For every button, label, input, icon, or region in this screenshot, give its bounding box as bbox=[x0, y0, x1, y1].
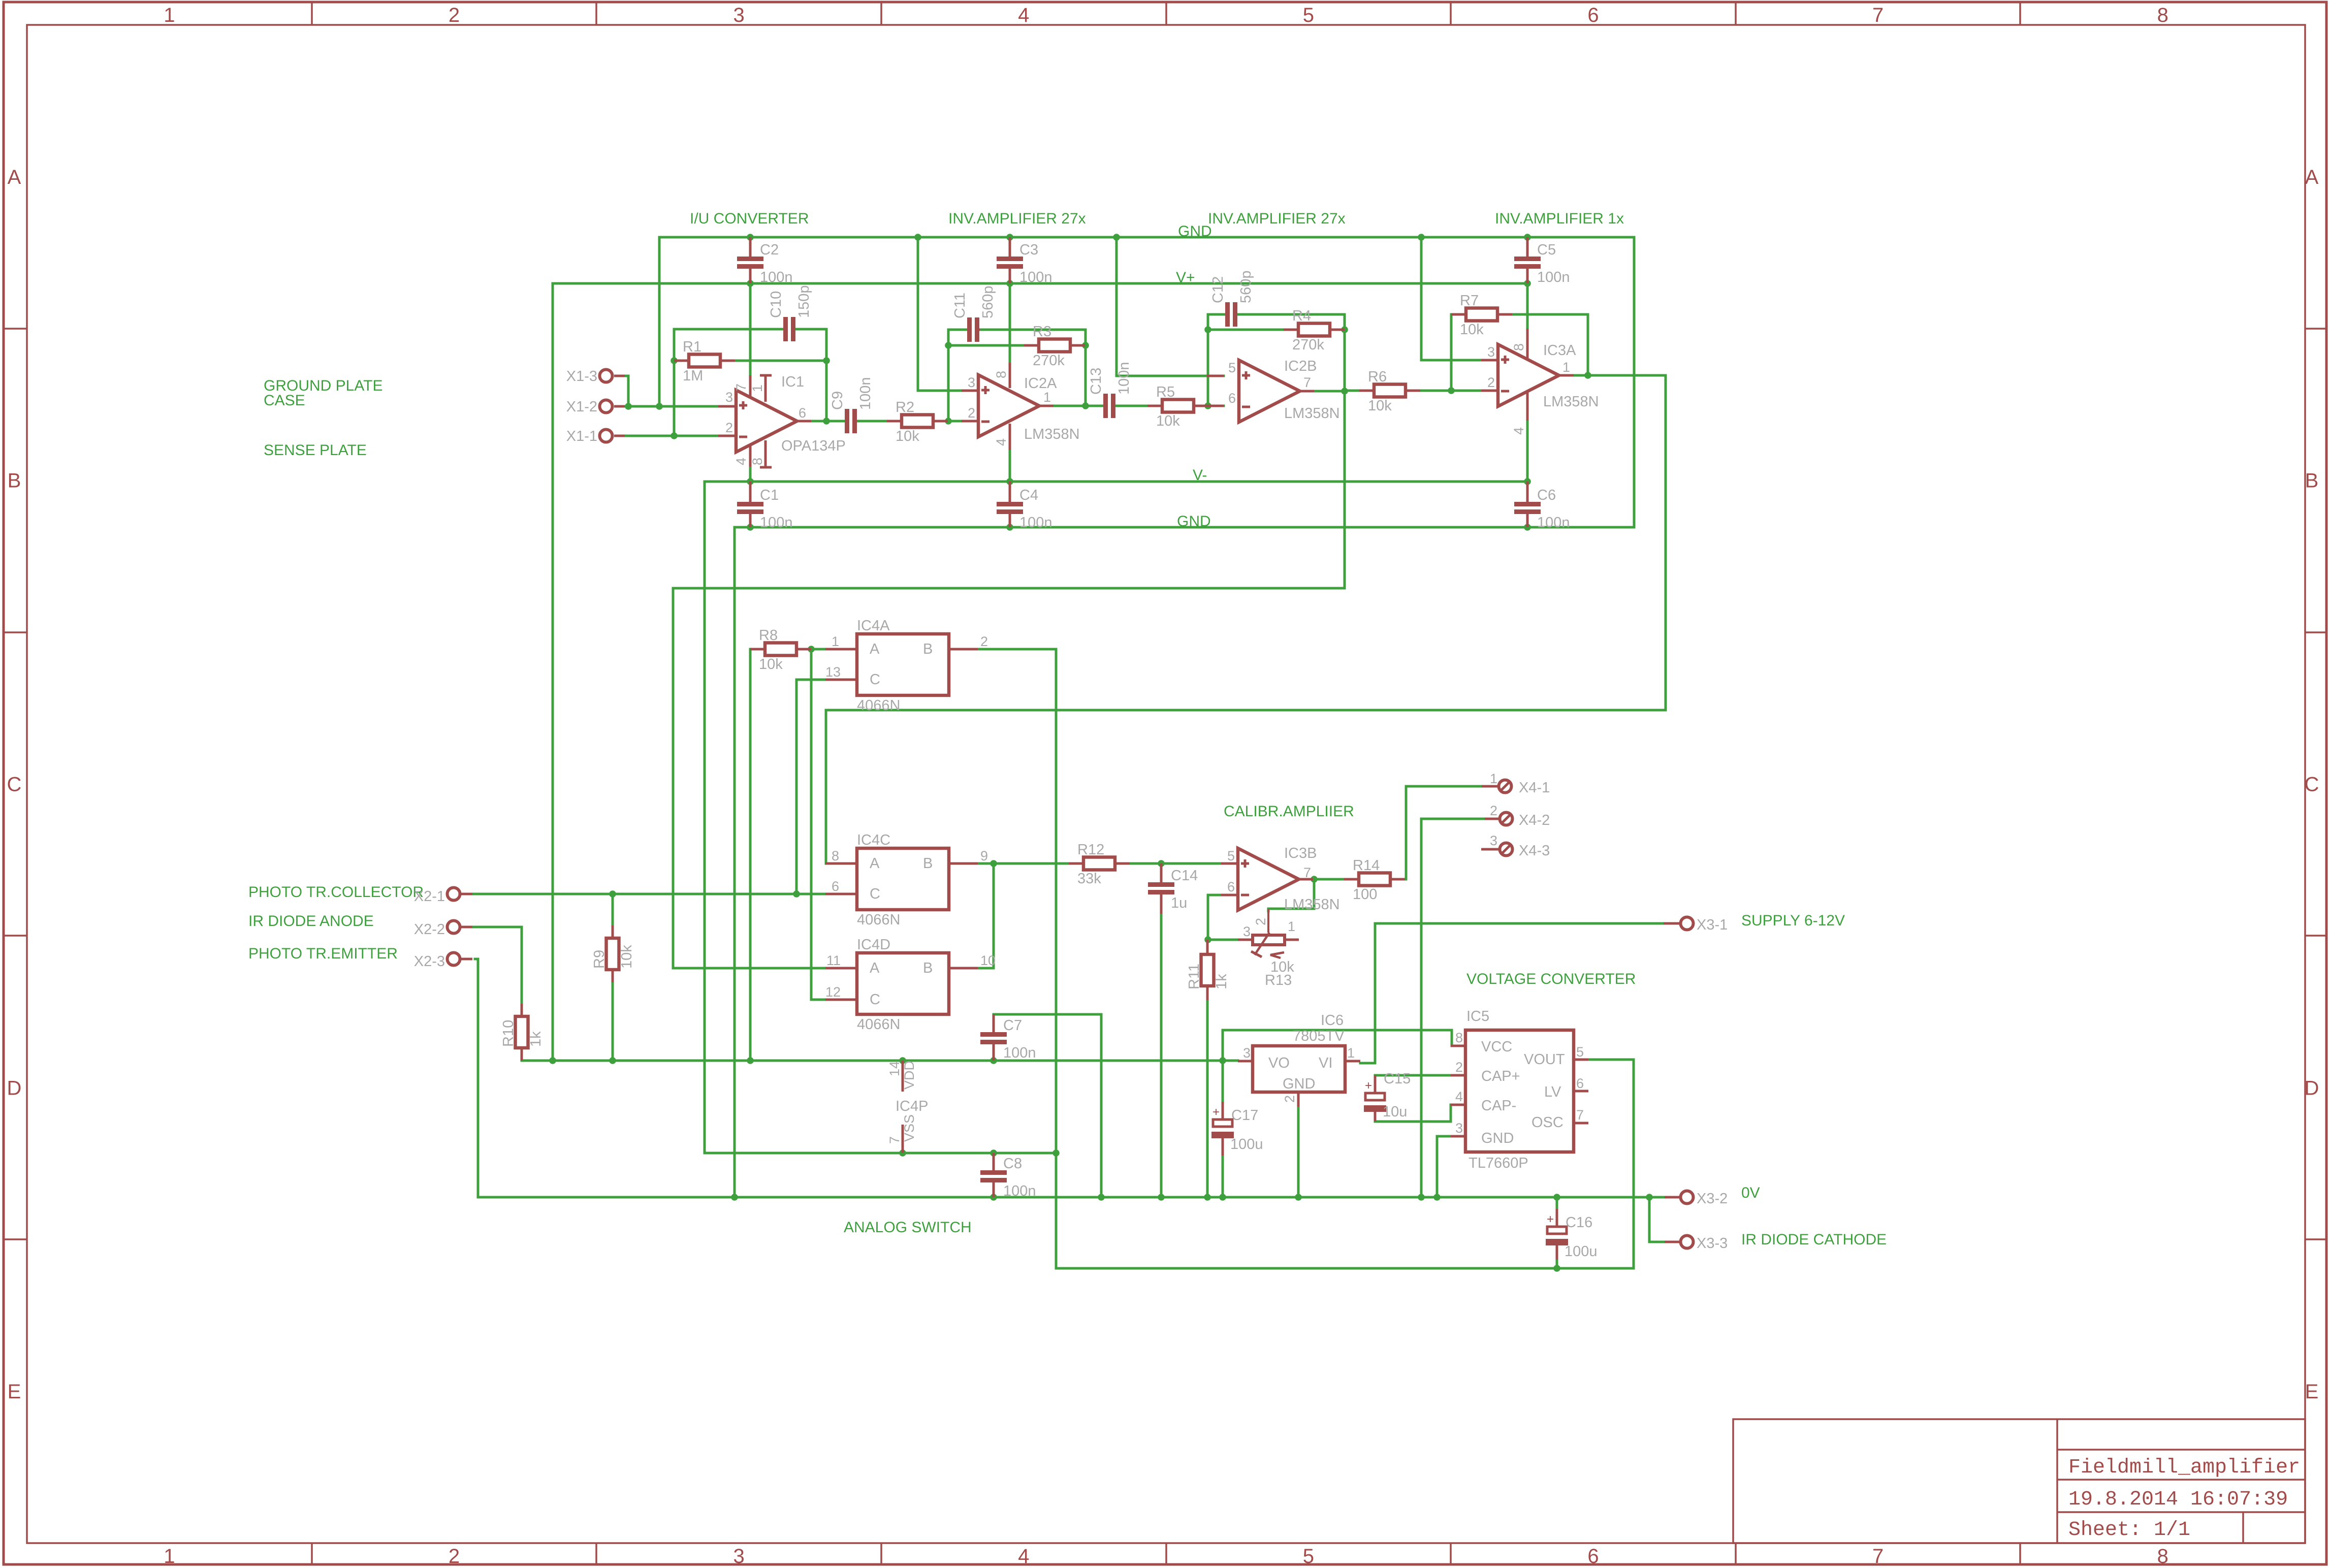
svg-text:R2: R2 bbox=[896, 399, 914, 415]
capacitor C15 bbox=[1374, 1075, 1377, 1093]
svg-text:100n: 100n bbox=[760, 269, 793, 285]
wire C17 bottom to 0V rail bbox=[1222, 1156, 1224, 1197]
svg-text:CAP-: CAP- bbox=[1481, 1098, 1516, 1114]
svg-text:X4-3: X4-3 bbox=[1519, 843, 1550, 859]
svg-text:CALIBR.AMPLIIER: CALIBR.AMPLIIER bbox=[1224, 803, 1354, 820]
svg-text:2: 2 bbox=[980, 634, 988, 649]
svg-text:1: 1 bbox=[832, 634, 839, 649]
junction dots analog switch bbox=[808, 646, 815, 653]
wire C7 top loop to 0V rail bbox=[994, 1014, 1101, 1197]
svg-text:CAP+: CAP+ bbox=[1481, 1068, 1520, 1084]
svg-text:+: + bbox=[1212, 1105, 1220, 1119]
svg-text:OPA134P: OPA134P bbox=[781, 438, 846, 454]
svg-text:7: 7 bbox=[733, 383, 749, 391]
wire R6 right to IC3A pin2 bbox=[1421, 390, 1481, 392]
wire R3/C11 left leg down to inverting input bbox=[947, 330, 950, 421]
wire IC4A pin2 long route to V- net bbox=[978, 649, 1634, 1268]
svg-text:560p: 560p bbox=[1238, 270, 1254, 303]
svg-text:1: 1 bbox=[750, 385, 765, 392]
wire R8 right node to IC4A pin1 bbox=[811, 648, 825, 651]
svg-text:CASE: CASE bbox=[264, 392, 305, 409]
svg-text:C16: C16 bbox=[1566, 1214, 1592, 1231]
svg-text:X2-2: X2-2 bbox=[414, 921, 445, 938]
capacitor C8 bbox=[993, 1153, 995, 1170]
svg-text:GND: GND bbox=[1481, 1130, 1514, 1146]
wire GND top rail with right wrap to bottom GND rail bbox=[659, 237, 1634, 1197]
capacitor C10 bbox=[782, 328, 785, 331]
wire X1-3 to X1-2 link bbox=[625, 376, 628, 406]
op-amp IC2B LM358N bbox=[1207, 375, 1224, 377]
svg-text:1: 1 bbox=[1347, 1045, 1355, 1061]
svg-text:C: C bbox=[2305, 774, 2319, 796]
svg-text:8: 8 bbox=[2157, 4, 2168, 26]
svg-text:C14: C14 bbox=[1171, 868, 1198, 884]
svg-text:8: 8 bbox=[832, 848, 839, 863]
connector X2-1 bbox=[461, 893, 472, 895]
svg-text:IR DIODE ANODE: IR DIODE ANODE bbox=[248, 913, 374, 930]
svg-text:7805TV: 7805TV bbox=[1293, 1028, 1345, 1044]
wire 0V rail bbox=[478, 1196, 1665, 1199]
wire X1-1 row to IC1 pin2 bbox=[625, 435, 718, 437]
connector X3-2 bbox=[1665, 1196, 1680, 1199]
svg-text:5: 5 bbox=[1576, 1044, 1584, 1060]
svg-text:E: E bbox=[8, 1381, 21, 1403]
svg-text:6: 6 bbox=[1228, 391, 1236, 406]
wire IC6 VO node up-over to IC5 VCC bbox=[1223, 1030, 1452, 1061]
svg-text:X1-3: X1-3 bbox=[566, 368, 597, 385]
svg-text:R9: R9 bbox=[591, 950, 608, 969]
svg-text:C15: C15 bbox=[1384, 1071, 1411, 1087]
svg-text:1u: 1u bbox=[1171, 895, 1187, 911]
junction dots GND top rail bbox=[747, 234, 754, 241]
svg-text:1: 1 bbox=[164, 1545, 175, 1567]
svg-text:X1-2: X1-2 bbox=[566, 399, 597, 415]
svg-text:3: 3 bbox=[725, 390, 733, 405]
svg-text:SUPPLY 6-12V: SUPPLY 6-12V bbox=[1741, 912, 1845, 929]
svg-text:7: 7 bbox=[1576, 1107, 1584, 1123]
svg-text:B: B bbox=[923, 960, 933, 976]
svg-text:C: C bbox=[7, 774, 22, 796]
wire R9 bottom to V+ rail bbox=[612, 982, 614, 1061]
wire R7 right to IC3A output bbox=[1513, 314, 1588, 375]
svg-text:C5: C5 bbox=[1537, 242, 1556, 258]
svg-text:B: B bbox=[923, 855, 933, 872]
capacitor C17 bbox=[1222, 1102, 1224, 1119]
wire IC2A output to C13 bbox=[1054, 405, 1103, 407]
svg-text:1: 1 bbox=[164, 4, 175, 26]
svg-text:6: 6 bbox=[1587, 4, 1599, 26]
wire C15 bottom to IC5 CAP- bbox=[1375, 1105, 1451, 1122]
svg-text:VSS: VSS bbox=[902, 1114, 917, 1142]
svg-text:C9: C9 bbox=[829, 391, 846, 410]
svg-text:270k: 270k bbox=[1033, 353, 1065, 369]
svg-text:4066N: 4066N bbox=[857, 697, 900, 714]
wire GND drop to X1-2 node bbox=[658, 237, 661, 406]
svg-text:VDD: VDD bbox=[902, 1061, 917, 1090]
svg-text:A: A bbox=[870, 641, 880, 657]
svg-text:X2-1: X2-1 bbox=[414, 888, 445, 905]
op-amp IC1 OPA134P bbox=[718, 405, 736, 408]
svg-text:INV.AMPLIFIER 1x: INV.AMPLIFIER 1x bbox=[1495, 210, 1624, 227]
junction dots input stage bbox=[625, 403, 632, 410]
svg-text:IC6: IC6 bbox=[1321, 1012, 1344, 1029]
svg-text:X2-3: X2-3 bbox=[414, 953, 445, 970]
svg-text:IC5: IC5 bbox=[1466, 1008, 1489, 1025]
svg-text:7: 7 bbox=[1303, 865, 1311, 880]
svg-text:2: 2 bbox=[725, 420, 733, 435]
capacitor C16 bbox=[1556, 1209, 1558, 1227]
svg-text:3: 3 bbox=[733, 1545, 744, 1567]
svg-text:100n: 100n bbox=[760, 515, 793, 531]
svg-text:A: A bbox=[870, 855, 880, 872]
svg-text:D: D bbox=[2305, 1077, 2319, 1099]
svg-text:10k: 10k bbox=[896, 428, 919, 444]
svg-text:+: + bbox=[1547, 1212, 1554, 1226]
wire X4-2 to 0V rail bbox=[1421, 819, 1485, 1197]
svg-text:4: 4 bbox=[733, 458, 749, 465]
connector X4-2 bbox=[1485, 818, 1499, 820]
wire V+ drop to lower V+ rail bbox=[552, 283, 554, 1061]
wire IC3B output feedback to R13 wiper bbox=[1268, 879, 1314, 911]
potentiometer R13 bbox=[1238, 939, 1253, 941]
wire IC4A pin13 to X2-1 net bbox=[796, 679, 825, 681]
svg-text:4: 4 bbox=[1455, 1089, 1463, 1104]
svg-text:X3-1: X3-1 bbox=[1697, 917, 1728, 933]
svg-text:IC4D: IC4D bbox=[857, 937, 890, 953]
junction dots IC3A stage bbox=[1448, 387, 1455, 394]
capacitor C10 bbox=[782, 328, 785, 331]
wire R6 left bbox=[1345, 390, 1359, 392]
svg-text:5: 5 bbox=[1303, 1545, 1314, 1567]
analog switch IC4C bbox=[825, 862, 857, 865]
svg-text:IC4P: IC4P bbox=[896, 1098, 928, 1114]
svg-text:1k: 1k bbox=[528, 1031, 544, 1047]
svg-text:LM358N: LM358N bbox=[1284, 405, 1340, 422]
svg-text:0V: 0V bbox=[1741, 1185, 1760, 1201]
connector X1-1 bbox=[614, 435, 625, 437]
wire V- drop to VSS rail bbox=[704, 482, 706, 1153]
svg-text:R8: R8 bbox=[759, 627, 778, 644]
wire C11 row left bbox=[948, 329, 967, 331]
connector X4-3 bbox=[1481, 848, 1499, 851]
wire C9 to R2 bbox=[857, 420, 887, 423]
svg-text:2: 2 bbox=[1253, 918, 1268, 925]
svg-text:R4: R4 bbox=[1292, 308, 1311, 324]
svg-text:Sheet: 1/1: Sheet: 1/1 bbox=[2068, 1519, 2190, 1542]
svg-text:ANALOG SWITCH: ANALOG SWITCH bbox=[844, 1219, 972, 1236]
svg-text:150p: 150p bbox=[796, 285, 812, 318]
svg-text:2: 2 bbox=[1490, 803, 1497, 818]
svg-text:PHOTO TR.EMITTER: PHOTO TR.EMITTER bbox=[248, 945, 398, 962]
svg-text:2: 2 bbox=[449, 1545, 460, 1567]
wire R8 node down to IC4D pin12 bbox=[811, 649, 825, 1000]
svg-text:C1: C1 bbox=[760, 487, 779, 503]
svg-text:X1-1: X1-1 bbox=[566, 428, 597, 444]
svg-text:7: 7 bbox=[1872, 4, 1884, 26]
svg-text:C8: C8 bbox=[1003, 1156, 1022, 1172]
svg-text:10k: 10k bbox=[619, 945, 635, 969]
wire IC2B output long route to IC4D pin 11 bbox=[673, 330, 1345, 968]
voltage regulator IC6 7805TV bbox=[1238, 1060, 1253, 1063]
svg-text:100n: 100n bbox=[1116, 362, 1132, 395]
wire R9 top junction bbox=[612, 894, 614, 926]
svg-text:19.8.2014 16:07:39: 19.8.2014 16:07:39 bbox=[2068, 1488, 2288, 1511]
wire IC3A pin3 from GND rail bbox=[1421, 237, 1481, 360]
wire IC3B output node bbox=[1313, 878, 1344, 881]
wire IC3A output long route to IC4C pin8 bbox=[826, 375, 1666, 863]
wire V+ top rail bbox=[553, 282, 1527, 285]
svg-text:C: C bbox=[870, 671, 880, 688]
svg-text:8: 8 bbox=[1511, 343, 1526, 351]
wire X3-3 branch from 0V rail bbox=[1649, 1197, 1665, 1242]
svg-text:C3: C3 bbox=[1019, 242, 1038, 258]
svg-text:R14: R14 bbox=[1353, 857, 1380, 874]
svg-text:R1: R1 bbox=[683, 339, 701, 355]
svg-text:B: B bbox=[8, 470, 21, 492]
wire IC1 output to C9 bbox=[811, 420, 845, 423]
svg-text:R12: R12 bbox=[1077, 842, 1104, 858]
wire C16 top to 0V rail bbox=[1556, 1197, 1558, 1209]
wire R11 bottom to 0V rail bbox=[1206, 1000, 1209, 1197]
svg-text:7: 7 bbox=[1872, 1545, 1884, 1567]
wire R7 left leg bbox=[1450, 314, 1453, 391]
title block bbox=[1733, 1419, 2305, 1543]
capacitor C13 bbox=[1102, 405, 1105, 407]
wire IC1 pin7 supply bbox=[749, 283, 752, 375]
svg-text:4: 4 bbox=[994, 438, 1009, 446]
svg-text:C17: C17 bbox=[1231, 1107, 1258, 1124]
wire C14 down to 0V rail bbox=[1160, 914, 1163, 1197]
svg-text:R13: R13 bbox=[1265, 972, 1292, 988]
svg-text:10k: 10k bbox=[1368, 398, 1392, 414]
svg-text:A: A bbox=[8, 166, 21, 188]
svg-text:6: 6 bbox=[1227, 879, 1235, 894]
wire R5 right to IC2B pin6 bbox=[1208, 405, 1224, 407]
svg-text:IC4A: IC4A bbox=[857, 618, 890, 634]
svg-text:C12: C12 bbox=[1210, 276, 1226, 303]
svg-text:3: 3 bbox=[968, 375, 975, 390]
svg-text:2: 2 bbox=[1282, 1095, 1297, 1103]
wire C12 right down to R4 right bbox=[1237, 314, 1345, 330]
svg-text:VO: VO bbox=[1268, 1055, 1290, 1071]
svg-text:R3: R3 bbox=[1033, 324, 1051, 340]
svg-text:INV.AMPLIFIER 27x: INV.AMPLIFIER 27x bbox=[948, 210, 1086, 227]
connector X1-3 bbox=[614, 375, 625, 377]
svg-text:A: A bbox=[870, 960, 880, 976]
op-amp IC3A LM358N bbox=[1481, 359, 1498, 362]
svg-text:X3-3: X3-3 bbox=[1697, 1235, 1728, 1252]
svg-text:8: 8 bbox=[994, 371, 1009, 378]
junction dots 0V rail bbox=[731, 1194, 738, 1201]
capacitor C14 bbox=[1160, 863, 1163, 882]
wire C16 bottom to V- return bbox=[1556, 1260, 1558, 1268]
svg-text:100u: 100u bbox=[1230, 1136, 1263, 1153]
svg-text:2: 2 bbox=[1455, 1060, 1463, 1075]
svg-text:8: 8 bbox=[1455, 1030, 1463, 1045]
svg-text:12: 12 bbox=[825, 984, 841, 1000]
svg-text:100u: 100u bbox=[1565, 1243, 1598, 1260]
svg-text:R5: R5 bbox=[1156, 384, 1175, 400]
svg-text:TL7660P: TL7660P bbox=[1469, 1155, 1528, 1171]
svg-text:IC2B: IC2B bbox=[1284, 358, 1317, 374]
analog switch IC4D bbox=[825, 967, 857, 970]
wire IC3A pin4 to V- rail bbox=[1526, 421, 1529, 482]
wire IC1 pin4 down to V- rail bbox=[749, 467, 752, 482]
svg-text:2: 2 bbox=[449, 4, 460, 26]
svg-text:5: 5 bbox=[1228, 360, 1236, 375]
junction dots V+ rail bbox=[747, 280, 754, 287]
svg-text:C: C bbox=[870, 886, 880, 902]
wire C10 row left bbox=[674, 328, 783, 331]
svg-text:LV: LV bbox=[1544, 1084, 1561, 1100]
junction dots V- rail bbox=[747, 478, 754, 485]
svg-text:4066N: 4066N bbox=[857, 1016, 900, 1033]
svg-text:LM358N: LM358N bbox=[1024, 426, 1080, 442]
junction dots IC2B stage bbox=[1204, 326, 1211, 333]
svg-text:3: 3 bbox=[1490, 833, 1497, 848]
wire IC5 GND pin3 to 0V rail bbox=[1437, 1136, 1451, 1197]
svg-text:10k: 10k bbox=[1156, 413, 1180, 429]
resistor R1 bbox=[674, 360, 689, 362]
svg-text:D: D bbox=[7, 1077, 22, 1099]
capacitor C9 bbox=[844, 420, 846, 423]
resistor R7 bbox=[1451, 313, 1466, 316]
svg-text:IC4C: IC4C bbox=[857, 832, 890, 848]
svg-text:100n: 100n bbox=[1537, 515, 1570, 531]
svg-text:A: A bbox=[2305, 166, 2319, 188]
svg-text:9: 9 bbox=[980, 848, 988, 863]
resistor R3 bbox=[1024, 344, 1039, 347]
svg-text:100n: 100n bbox=[1537, 269, 1570, 285]
wire X3-1 supply to IC6 VI bbox=[1360, 923, 1664, 1063]
wire C10 row right down to output node bbox=[795, 329, 826, 421]
svg-text:4: 4 bbox=[1511, 427, 1526, 435]
svg-text:13: 13 bbox=[825, 664, 841, 680]
svg-text:3: 3 bbox=[733, 4, 744, 26]
svg-text:C4: C4 bbox=[1019, 487, 1038, 503]
analog switch IC4A bbox=[825, 648, 857, 651]
resistor R6 bbox=[1359, 390, 1374, 392]
svg-text:C11: C11 bbox=[952, 293, 968, 318]
wire R4 left bbox=[1208, 329, 1284, 331]
svg-text:PHOTO TR.COLLECTOR: PHOTO TR.COLLECTOR bbox=[248, 884, 424, 901]
svg-text:1M: 1M bbox=[683, 368, 703, 384]
svg-text:C6: C6 bbox=[1537, 487, 1556, 503]
wire C13 to R5 bbox=[1115, 405, 1147, 407]
connector X1-2 bbox=[614, 405, 625, 408]
capacitor C7 bbox=[993, 1014, 995, 1032]
wire C11 right leg down to R3 right and IC2A output bbox=[980, 330, 1086, 406]
wire IC2A pin8 supply bbox=[1009, 283, 1011, 363]
junction dots IC2A stage bbox=[945, 418, 952, 425]
svg-text:R11: R11 bbox=[1186, 964, 1202, 989]
wire V- rail bbox=[705, 481, 1527, 483]
junction dots lower V+ rail bbox=[549, 1057, 556, 1064]
wire C15 top to IC5 CAP+ bbox=[1375, 1075, 1451, 1093]
svg-text:LM358N: LM358N bbox=[1284, 897, 1340, 913]
svg-text:IC3A: IC3A bbox=[1543, 342, 1576, 359]
wire R12 to IC3B pin5 bbox=[1130, 862, 1224, 865]
svg-text:OSC: OSC bbox=[1531, 1114, 1563, 1131]
resistor R12 bbox=[1069, 862, 1083, 865]
svg-text:6: 6 bbox=[1587, 1545, 1599, 1567]
svg-text:270k: 270k bbox=[1292, 337, 1324, 353]
junction dot C16 bottom / V- return bbox=[1553, 1265, 1560, 1272]
wire feedback leg up from R5 node to C12 row bbox=[1208, 314, 1225, 406]
resistor R2 bbox=[887, 420, 902, 423]
wire R3 left bbox=[948, 344, 1024, 347]
svg-text:X3-2: X3-2 bbox=[1697, 1191, 1728, 1207]
charge pump IC5 TL7660P bbox=[1451, 1045, 1465, 1047]
svg-text:R6: R6 bbox=[1368, 369, 1387, 385]
capacitor C11 bbox=[966, 329, 969, 331]
svg-text:3: 3 bbox=[1487, 344, 1495, 360]
connector X3-1 bbox=[1664, 922, 1680, 925]
frame row ticks bbox=[4, 328, 27, 330]
svg-text:C13: C13 bbox=[1088, 368, 1104, 395]
svg-text:IR DIODE CATHODE: IR DIODE CATHODE bbox=[1741, 1231, 1887, 1248]
capacitor C2 bbox=[749, 237, 752, 257]
svg-text:1: 1 bbox=[1490, 771, 1497, 786]
op-amp IC3B LM358N bbox=[1221, 862, 1238, 865]
capacitor C3 bbox=[1009, 237, 1011, 257]
svg-text:IC2A: IC2A bbox=[1024, 375, 1057, 392]
capacitor C1 bbox=[749, 482, 752, 502]
svg-text:B: B bbox=[923, 641, 933, 657]
svg-text:+: + bbox=[1365, 1079, 1372, 1093]
svg-text:C: C bbox=[870, 991, 880, 1008]
svg-text:8: 8 bbox=[750, 458, 765, 465]
svg-text:IC3B: IC3B bbox=[1284, 845, 1317, 861]
capacitor C4 bbox=[1009, 482, 1011, 502]
svg-text:VOLTAGE CONVERTER: VOLTAGE CONVERTER bbox=[1466, 971, 1636, 987]
resistor R14 bbox=[1344, 878, 1359, 881]
svg-text:R7: R7 bbox=[1460, 293, 1479, 309]
svg-text:100n: 100n bbox=[857, 377, 874, 410]
connector X2-2 bbox=[461, 926, 472, 929]
svg-text:5: 5 bbox=[1303, 4, 1314, 26]
wire R8 left leg down to V+ rail bbox=[749, 649, 752, 1061]
svg-text:100n: 100n bbox=[1003, 1045, 1036, 1061]
svg-text:6: 6 bbox=[832, 879, 839, 894]
svg-text:7: 7 bbox=[887, 1136, 902, 1144]
svg-text:C7: C7 bbox=[1003, 1017, 1022, 1034]
svg-text:X4-1: X4-1 bbox=[1519, 780, 1550, 796]
connector X3-3 bbox=[1665, 1241, 1680, 1243]
svg-text:1: 1 bbox=[1562, 360, 1570, 375]
wire IC4C pin9 node down to IC4D pin10 bbox=[978, 863, 994, 968]
junction dots VSS rail bbox=[899, 1149, 906, 1157]
svg-text:LM358N: LM358N bbox=[1543, 394, 1599, 410]
svg-text:2: 2 bbox=[968, 405, 975, 421]
wire IC6 GND pin to 0V rail bbox=[1297, 1107, 1300, 1197]
svg-text:6: 6 bbox=[799, 405, 806, 421]
wire X1-2 row to IC1 pin3 bbox=[625, 405, 718, 408]
svg-text:4: 4 bbox=[1018, 4, 1029, 26]
resistor R10 bbox=[521, 1004, 523, 1016]
svg-text:3: 3 bbox=[1243, 924, 1251, 939]
wire IC2A pin4 to V- rail bbox=[1009, 450, 1011, 482]
svg-text:Fieldmill_amplifier: Fieldmill_amplifier bbox=[2068, 1456, 2300, 1479]
wire VSS rail bbox=[705, 1152, 1056, 1155]
svg-text:VOUT: VOUT bbox=[1524, 1051, 1565, 1068]
svg-text:1k: 1k bbox=[1214, 974, 1230, 989]
svg-text:3: 3 bbox=[1243, 1045, 1251, 1061]
svg-text:IC1: IC1 bbox=[781, 374, 804, 390]
svg-text:3: 3 bbox=[1455, 1121, 1463, 1136]
wire IC2A pin3 from GND rail bbox=[918, 237, 962, 391]
wire IC3A pin8 supply bbox=[1526, 283, 1529, 329]
